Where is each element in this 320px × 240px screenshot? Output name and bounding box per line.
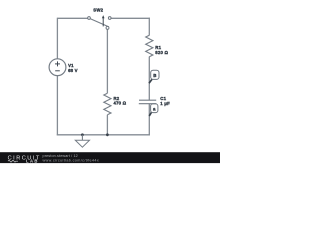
wire top-right horizontal segment (111, 17, 150, 19)
ground (75, 135, 89, 147)
resistor R1 (146, 35, 153, 57)
node flag B leader line (149, 79, 152, 83)
wire right rail below C1 to bottom (148, 104, 150, 136)
switch SW2 actuator arrow (102, 18, 104, 27)
capacitor C1 (139, 100, 157, 104)
footer bar (0, 152, 220, 163)
switch SW2 lever (90, 19, 109, 27)
svg-text:68 V: 68 V (68, 68, 78, 73)
wire middle rail R2 to bottom (106, 115, 108, 135)
wire right rail top segment (148, 18, 150, 36)
svg-text:B: B (153, 73, 156, 78)
svg-text:www.circuitlab.com/c/9fe44x: www.circuitlab.com/c/9fe44x (43, 158, 100, 162)
capacitor C1 top plate (139, 99, 156, 101)
junction dot ground node (81, 133, 84, 136)
svg-text:SW2: SW2 (93, 8, 103, 13)
wire left rail lower segment (56, 76, 58, 136)
node flag B (149, 70, 159, 83)
footer logo waveform (8, 160, 18, 162)
switch SW2 left terminal pin 1 (88, 17, 91, 20)
wire left rail upper segment (56, 18, 58, 59)
svg-text:1 μF: 1 μF (160, 101, 170, 106)
node flag a (149, 104, 158, 116)
wire right rail between R1 and C1 (148, 57, 150, 100)
capacitor C1 bottom plate (139, 103, 157, 105)
node flag a box (151, 104, 158, 113)
voltage source V1 circle body (49, 59, 66, 76)
voltage source V1 (49, 59, 66, 76)
switch SW2 (88, 15, 111, 29)
node flag a leader line (149, 112, 151, 116)
ground stub wire (81, 135, 83, 140)
junction dot middle rail bottom (106, 133, 109, 136)
switch SW2 right terminal pin 2 (108, 17, 111, 20)
voltage source V1 plus sign (55, 63, 60, 65)
svg-text:LAB: LAB (26, 159, 39, 164)
voltage source V1 minus sign (55, 70, 60, 72)
node flag B box (151, 70, 159, 79)
resistor R2 (104, 93, 111, 115)
wire top-left horizontal segment (57, 17, 87, 19)
wire middle rail switch to R2 (106, 29, 108, 93)
svg-text:C1: C1 (160, 96, 166, 101)
svg-text:470 Ω: 470 Ω (114, 101, 127, 106)
switch SW2 common terminal pin 3 (106, 26, 109, 29)
ground triangle (75, 140, 89, 147)
svg-text:820 Ω: 820 Ω (155, 50, 168, 55)
wire bottom horizontal segment (57, 134, 150, 136)
